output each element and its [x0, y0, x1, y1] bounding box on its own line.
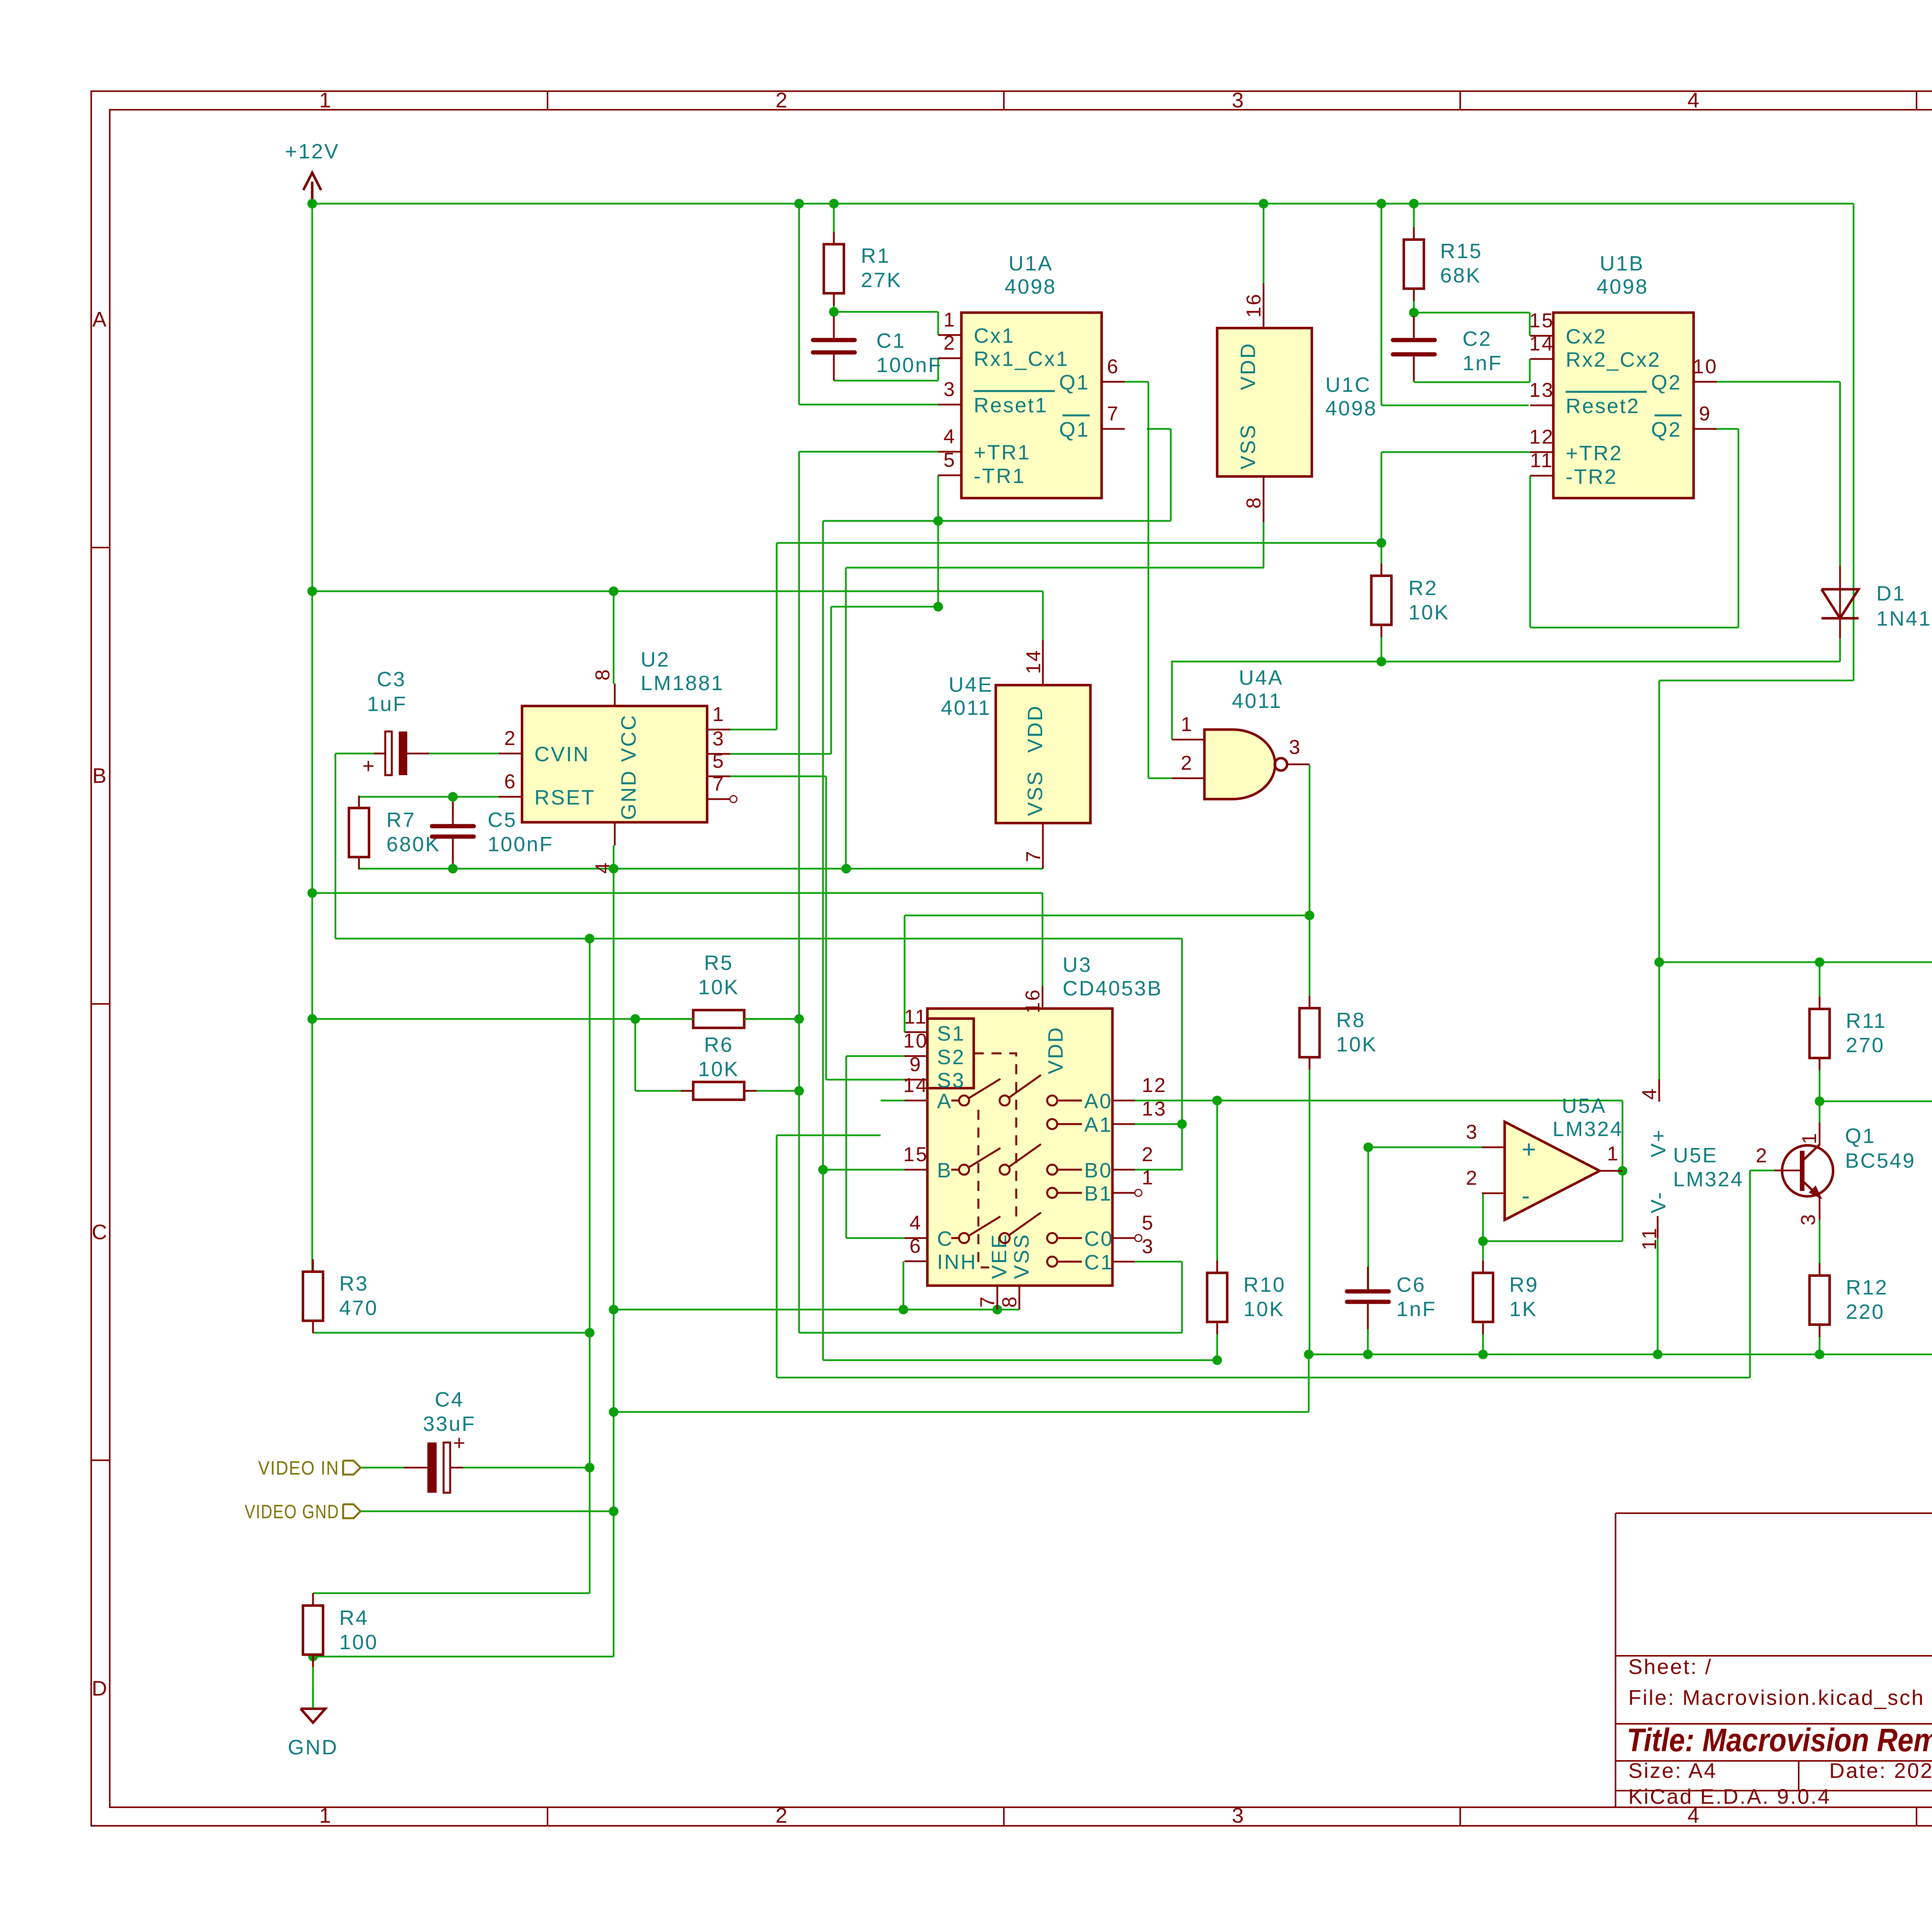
wire R11 to Q1 collector x4709	[1819, 1058, 1821, 1123]
svg-text:14: 14	[903, 1074, 929, 1097]
svg-text:B: B	[92, 764, 108, 788]
wire Q1 emitter to R12 x4709	[1819, 1220, 1821, 1276]
svg-text:4011: 4011	[1232, 689, 1282, 713]
svg-text:-: -	[1522, 1182, 1531, 1209]
svg-text:A0: A0	[1084, 1090, 1112, 1113]
svg-text:3: 3	[1142, 1235, 1154, 1258]
wire U1C pin8 riser x3270	[1263, 522, 1265, 568]
U2 pins	[614, 684, 616, 706]
svg-text:1: 1	[1142, 1167, 1154, 1189]
svg-text:4098: 4098	[1325, 397, 1377, 420]
U3 switch B	[951, 1169, 959, 1171]
wire S3 pin9 y2794	[826, 1079, 905, 1081]
svg-text:4: 4	[944, 425, 956, 448]
wire Rx1 bottom y985	[834, 380, 938, 382]
svg-text:+: +	[1522, 1135, 1537, 1163]
wire +TR1 y1169	[799, 451, 938, 453]
svg-text:+TR1: +TR1	[974, 441, 1031, 464]
wire R2 top column x3575	[1381, 452, 1383, 576]
wire R8 bottom x3389	[1309, 1057, 1311, 1354]
svg-text:C3: C3	[377, 668, 406, 691]
svg-text:6: 6	[910, 1235, 922, 1257]
svg-text:10K: 10K	[1408, 601, 1450, 624]
svg-text:15: 15	[903, 1143, 929, 1166]
wire C6 top riser x3541	[1367, 1147, 1369, 1289]
wire CSOUT net y1405	[777, 542, 1381, 544]
wire R3 bottom x810	[312, 1321, 314, 1333]
svg-text:B: B	[937, 1159, 952, 1182]
svg-text:100: 100	[339, 1631, 378, 1654]
svg-text:A: A	[92, 307, 108, 331]
wire R5/R6 link x1644	[634, 1019, 636, 1091]
opamp U5A LM324	[1505, 1122, 1600, 1220]
wire D1 bottom x4762	[1839, 638, 1841, 662]
wire Reset1 y1047	[799, 404, 938, 406]
svg-text:R11: R11	[1846, 1009, 1887, 1032]
svg-text:B0: B0	[1084, 1159, 1112, 1182]
svg-text:GND: GND	[288, 1736, 338, 1759]
svg-text:Q1: Q1	[1845, 1124, 1876, 1148]
U3 left pins	[905, 1031, 927, 1033]
wire video to A1/B0 x3059	[1181, 939, 1183, 1170]
wire -TR1 riser x2428	[937, 475, 939, 607]
svg-text:2: 2	[504, 727, 517, 750]
svg-text:R6: R6	[704, 1033, 733, 1056]
svg-text:12: 12	[1529, 426, 1554, 448]
power +12V symbol	[311, 182, 314, 204]
wire R4 top x810	[312, 1593, 314, 1606]
svg-text:A: A	[937, 1090, 952, 1113]
svg-text:C2: C2	[1463, 327, 1492, 350]
svg-text:11: 11	[1638, 1227, 1661, 1250]
U4E pins	[1042, 640, 1044, 685]
wire R15 bottom lead x3659	[1413, 289, 1415, 313]
svg-text:VDD: VDD	[1044, 1026, 1067, 1074]
svg-text:U2: U2	[641, 648, 670, 671]
IC U1C 4098 body	[1217, 328, 1312, 476]
svg-text:+TR2: +TR2	[1566, 442, 1623, 465]
wire C pin4 y3204	[846, 1237, 905, 1239]
svg-text:U5E: U5E	[1673, 1144, 1718, 1167]
wire VSOUT y1951	[730, 753, 831, 755]
wire U1C VDD riser x3270	[1263, 204, 1265, 283]
wire BPOUT y2009	[730, 776, 826, 777]
wire Q1bar pin7 y1110	[1147, 428, 1171, 430]
svg-text:R12: R12	[1846, 1276, 1888, 1299]
wire U5A feedback bottom y3212	[1483, 1240, 1622, 1242]
svg-text:8: 8	[998, 1295, 1021, 1308]
svg-text:C: C	[937, 1227, 954, 1250]
capacitor C2	[1393, 338, 1435, 342]
svg-text:12: 12	[1142, 1074, 1167, 1097]
svg-text:RSET: RSET	[534, 786, 595, 809]
svg-text:LM324: LM324	[1553, 1118, 1623, 1141]
wire U2 VCC riser x1588	[613, 591, 615, 684]
svg-text:CVIN: CVIN	[534, 743, 590, 766]
svg-text:1K: 1K	[1509, 1298, 1537, 1321]
svg-text:3: 3	[944, 378, 956, 401]
wire +12V right down x4797	[1853, 204, 1855, 680]
svg-text:3: 3	[1232, 1803, 1245, 1827]
wire CSOUT riser x2010	[776, 543, 778, 730]
capacitor C3 1uF polarized	[385, 731, 392, 775]
svg-text:7: 7	[1107, 403, 1119, 425]
svg-text:27K: 27K	[861, 269, 902, 292]
capacitor C5	[432, 824, 474, 828]
wire R2/D1/U4A1 net y1712	[1171, 661, 1840, 663]
U3 right pins	[1112, 1100, 1135, 1102]
svg-text:+12V: +12V	[285, 140, 340, 163]
resistor R5	[681, 1018, 693, 1020]
svg-text:7: 7	[1022, 850, 1045, 862]
svg-text:1uF: 1uF	[367, 692, 407, 716]
svg-text:5: 5	[944, 449, 956, 471]
wire VSOUT riser x2151	[830, 607, 832, 754]
svg-text:C0: C0	[1084, 1227, 1114, 1250]
U3 switch A	[951, 1100, 959, 1102]
svg-text:4: 4	[910, 1212, 922, 1234]
IC U2 LM1881 body	[522, 706, 707, 822]
wire C2 bottom lead x3659	[1413, 356, 1415, 382]
svg-text:100nF: 100nF	[488, 833, 554, 856]
diode D1 1N4148	[1821, 589, 1859, 618]
svg-text:5: 5	[713, 750, 725, 772]
wire Q1 base y3029	[1750, 1170, 1774, 1172]
svg-text:Size: A4: Size: A4	[1628, 1759, 1717, 1783]
resistor R1	[833, 232, 835, 244]
svg-text:U4A: U4A	[1239, 666, 1284, 689]
wire Reset1 to bus x2068	[798, 204, 800, 405]
svg-text:R8: R8	[1336, 1009, 1366, 1032]
svg-text:1: 1	[1181, 713, 1193, 736]
wire ground mid rail y2248	[359, 868, 1043, 870]
svg-text:Rx1_Cx1: Rx1_Cx1	[974, 347, 1069, 371]
svg-text:V+: V+	[1647, 1128, 1670, 1157]
wire R7 top lead x929	[358, 797, 360, 808]
U3 S-box	[927, 1019, 974, 1088]
wire Q1 pin6 y988	[1125, 381, 1148, 383]
wire R10 bottom x3150	[1216, 1322, 1218, 1360]
wire CVIN y1950	[429, 753, 499, 755]
svg-text:470: 470	[339, 1296, 378, 1320]
resistor R12	[1819, 1263, 1821, 1276]
resistor R15	[1413, 227, 1415, 240]
svg-text:7: 7	[713, 773, 725, 795]
svg-text:9: 9	[910, 1053, 922, 1076]
wire -TR2 riser x3960	[1529, 476, 1531, 628]
svg-text:CD4053B: CD4053B	[1063, 977, 1163, 1000]
svg-text:4: 4	[1638, 1087, 1661, 1100]
wire U1C pin8 y1469	[846, 567, 1264, 569]
U3 INH wire down	[903, 1261, 905, 1310]
wire CSOUT y1888	[730, 729, 777, 731]
wire A net lower y3565	[777, 1377, 1750, 1379]
wire Q2bar loop x4499	[1738, 429, 1740, 628]
wire U4E VDD riser x2699	[1042, 591, 1044, 640]
wire R4 bottom to gnd x810	[312, 1657, 314, 1708]
svg-text:1nF: 1nF	[1463, 352, 1503, 375]
opamp power U5E LM324	[1658, 1079, 1660, 1102]
resistor R4	[312, 1593, 314, 1606]
U3 pin5 no-connect circle	[1135, 1235, 1142, 1242]
svg-text:2: 2	[1756, 1145, 1768, 1167]
wire Cx1 top y807	[834, 311, 938, 313]
wire +12V top right y1761	[1659, 680, 1854, 682]
svg-text:R1: R1	[861, 244, 890, 267]
svg-text:U1C: U1C	[1325, 373, 1371, 396]
svg-text:4011: 4011	[941, 696, 991, 720]
wire Cx1 riser x2428	[937, 312, 939, 335]
svg-text:Q1: Q1	[1059, 418, 1090, 441]
svg-text:1nF: 1nF	[1396, 1298, 1437, 1321]
wire U3 VDD riser x2698	[1042, 893, 1044, 986]
svg-text:3: 3	[1797, 1213, 1820, 1225]
svg-text:3: 3	[713, 728, 725, 750]
wire C6 bottom lead x3541	[1367, 1304, 1369, 1354]
svg-text:Title: Macrovision Remover: Title: Macrovision Remover	[1627, 1722, 1932, 1758]
U3 top pin16	[1042, 986, 1044, 1009]
svg-text:1: 1	[319, 88, 332, 112]
svg-text:14: 14	[1022, 649, 1045, 674]
svg-text:Cx2: Cx2	[1566, 325, 1607, 348]
svg-text:1: 1	[944, 309, 956, 331]
svg-text:U1A: U1A	[1009, 252, 1053, 275]
svg-text:R5: R5	[704, 951, 733, 975]
wire C2 top lead x3659	[1413, 313, 1415, 339]
svg-text:220: 220	[1846, 1300, 1885, 1323]
hierarchical label VIDEO IN	[343, 1461, 361, 1475]
svg-text:5: 5	[1142, 1212, 1154, 1234]
wire +12V right rail y2490	[1659, 961, 1932, 963]
svg-text:2: 2	[944, 332, 956, 354]
wire Q2bar loop bottom y1624	[1530, 627, 1738, 629]
svg-text:3: 3	[1289, 736, 1301, 759]
wire +12V bus y527	[312, 203, 1854, 205]
junction dots	[308, 199, 317, 209]
title block	[1616, 1512, 1932, 1514]
svg-text:8: 8	[592, 668, 614, 680]
svg-text:2: 2	[776, 88, 789, 112]
wire R5 row y2637	[312, 1018, 799, 1020]
svg-text:R4: R4	[339, 1606, 369, 1630]
svg-text:R3: R3	[339, 1272, 369, 1295]
wire C2 bottom y989	[1414, 381, 1530, 383]
svg-text:KiCad E.D.A. 9.0.4: KiCad E.D.A. 9.0.4	[1628, 1784, 1831, 1808]
wire video bus y2429	[335, 938, 1182, 940]
svg-text:11: 11	[1530, 449, 1554, 472]
svg-text:C: C	[92, 1220, 108, 1244]
wire Q1bar/S3/-TR1 y1348	[823, 520, 1171, 522]
resistor R6	[681, 1090, 693, 1092]
svg-text:R9: R9	[1509, 1273, 1539, 1296]
wire C1 mux riser x3059	[1181, 1262, 1183, 1333]
resistor R3	[312, 1259, 314, 1272]
wire C5 top lead x1172	[452, 797, 454, 824]
svg-text:4: 4	[592, 861, 614, 874]
wire B/R10 row y3520	[823, 1359, 1217, 1361]
wire Q1bar to B column x2130	[822, 521, 824, 1360]
transistor Q1 BC549 NPN	[1782, 1145, 1833, 1196]
svg-text:Reset2: Reset2	[1566, 395, 1640, 418]
IC U3 CD4053B body	[927, 1009, 1112, 1286]
U3 dashed control lines	[974, 1053, 1016, 1221]
wire video to R4 y4123	[313, 1592, 590, 1594]
svg-text:2: 2	[1142, 1143, 1154, 1166]
wire R15 top lead x3659	[1413, 204, 1415, 240]
svg-text:U5A: U5A	[1562, 1094, 1607, 1118]
wire A pin14 y2848	[881, 1100, 905, 1102]
wire R12 bottom x4709	[1819, 1325, 1821, 1354]
svg-text:C5: C5	[488, 808, 517, 832]
svg-text:68K: 68K	[1440, 264, 1481, 287]
svg-text:VSS: VSS	[1236, 424, 1260, 469]
U3 bottom pins	[997, 1286, 998, 1310]
svg-text:R15: R15	[1440, 240, 1483, 263]
wire U5A plus input y2969	[1368, 1146, 1482, 1148]
svg-text:Date: 2025-09-26: Date: 2025-09-26	[1829, 1759, 1932, 1783]
svg-text:S3: S3	[937, 1069, 965, 1092]
capacitor C6	[1347, 1289, 1389, 1294]
svg-text:VIDEO IN: VIDEO IN	[258, 1457, 339, 1479]
svg-text:8: 8	[1243, 496, 1265, 509]
svg-text:270: 270	[1846, 1034, 1885, 1057]
svg-text:2: 2	[1181, 752, 1193, 774]
wire ground column x1588	[613, 845, 615, 1657]
wire video column x1526	[589, 939, 591, 1593]
svg-text:R7: R7	[386, 808, 416, 832]
wire R1 top lead x2158	[833, 204, 835, 244]
svg-text:BC549: BC549	[1845, 1149, 1916, 1172]
wire ground rail y3505	[1309, 1354, 1932, 1356]
svg-text:2: 2	[1466, 1167, 1478, 1189]
wire Reset2 to bus x3575	[1381, 204, 1383, 405]
svg-text:VSS: VSS	[1024, 770, 1047, 816]
wire BPOUT to S3 x2138	[825, 776, 827, 1080]
wire U1C VSS to gnd x2189	[845, 568, 847, 869]
svg-text:Sheet: /: Sheet: /	[1628, 1655, 1713, 1679]
wire A1 y2909	[1135, 1123, 1182, 1125]
svg-text:VIDEO GND: VIDEO GND	[245, 1501, 339, 1522]
svg-text:10: 10	[903, 1030, 929, 1052]
wire gnd to R4 y4287	[313, 1656, 614, 1658]
svg-text:S1: S1	[937, 1022, 965, 1045]
wire gnd link y3654	[614, 1411, 1309, 1413]
svg-text:11: 11	[904, 1006, 928, 1028]
wire R6 row y2823	[635, 1090, 799, 1092]
svg-text:3: 3	[1466, 1121, 1478, 1143]
wire C3 left y1950	[335, 753, 384, 755]
wire Q2 pin10 y988	[1715, 381, 1840, 383]
svg-text:1: 1	[1798, 1132, 1821, 1144]
svg-text:6: 6	[504, 771, 517, 793]
svg-text:1: 1	[1607, 1143, 1619, 1165]
svg-text:Q2: Q2	[1651, 418, 1682, 441]
wire A0 to R10 x3150	[1216, 1101, 1218, 1273]
U3 pin1 no-connect circle	[1135, 1189, 1142, 1196]
svg-text:C1: C1	[876, 329, 906, 352]
wire R2 bottom x3575	[1381, 626, 1383, 662]
wire Rx1 riser x2428	[937, 358, 939, 381]
svg-text:10K: 10K	[698, 976, 740, 999]
svg-text:-TR2: -TR2	[1566, 465, 1617, 488]
U1B pins	[1530, 335, 1553, 337]
wire Reset2 y1049	[1381, 405, 1529, 407]
svg-text:4: 4	[1687, 88, 1701, 112]
svg-text:4098: 4098	[1597, 275, 1648, 298]
wire RSET y2062	[359, 796, 499, 798]
wire Cx2 riser x3959	[1529, 313, 1531, 336]
svg-text:1: 1	[319, 1803, 332, 1827]
svg-text:100nF: 100nF	[876, 354, 942, 377]
wire C1net to mux y3449	[799, 1332, 1182, 1334]
svg-text:1: 1	[713, 703, 725, 726]
svg-text:VDD: VDD	[1236, 342, 1260, 390]
wire VEE/VSS/INH y3389	[614, 1309, 1019, 1311]
svg-text:10K: 10K	[1243, 1298, 1285, 1321]
U3 switch C	[951, 1237, 959, 1239]
IC U1A 4098 body	[961, 313, 1102, 498]
svg-text:6: 6	[1107, 356, 1119, 378]
svg-text:7: 7	[976, 1295, 999, 1308]
svg-text:GND: GND	[617, 770, 640, 820]
wire +TR2 y1170	[1381, 451, 1530, 453]
svg-text:14: 14	[1529, 333, 1554, 355]
resistor R7	[358, 796, 360, 808]
wire Q1 base riser x4529	[1749, 1170, 1751, 1378]
wire C3 to video x868	[335, 754, 337, 939]
wire R1 bottom lead x2158	[833, 293, 835, 312]
svg-text:-TR1: -TR1	[974, 464, 1026, 488]
IC U4E 4011 body	[996, 685, 1090, 823]
wire S1 control y2369	[905, 915, 1310, 917]
capacitor C1	[813, 338, 855, 342]
U2 pin7 no-connect circle	[730, 796, 737, 803]
resistor R10	[1216, 1260, 1218, 1273]
svg-text:10: 10	[1693, 356, 1718, 378]
svg-text:Reset1: Reset1	[974, 394, 1048, 417]
U1C pins	[1263, 283, 1265, 328]
wire B0 y3027	[1135, 1169, 1182, 1171]
svg-text:C6: C6	[1396, 1273, 1426, 1296]
svg-text:13: 13	[1142, 1098, 1167, 1120]
resistor R2	[1381, 563, 1383, 576]
ground GND symbol	[312, 1689, 314, 1708]
svg-text:D: D	[92, 1676, 108, 1700]
svg-text:33uF: 33uF	[423, 1412, 476, 1436]
wire A net upper y2938	[777, 1135, 881, 1136]
wire R11 to Q2 base y2850	[1820, 1101, 1932, 1102]
wire VIDEO GND y3911	[361, 1510, 614, 1512]
svg-text:LM1881: LM1881	[641, 672, 724, 695]
wire C5 bottom lead x1172	[452, 839, 454, 869]
wire U4A pin1 riser x3033	[1171, 662, 1173, 740]
wire Q2bar pin9 y1110	[1715, 428, 1738, 430]
wire V+ riser x4294	[1658, 680, 1660, 1079]
resistor R9	[1482, 1260, 1484, 1273]
wire R9 bottom x3838	[1482, 1322, 1484, 1354]
wire +TR1/R5 column x2068	[798, 452, 800, 1333]
U1A pins	[938, 334, 961, 336]
svg-text:U3: U3	[1063, 953, 1092, 976]
wire VIDEO IN left y3798	[361, 1467, 404, 1469]
wire C2 top y809	[1414, 312, 1530, 314]
wire gnd link riser x3387	[1308, 1354, 1310, 1412]
wire R9 top x3838	[1482, 1193, 1484, 1273]
svg-text:B1: B1	[1084, 1182, 1112, 1205]
wire U4A out to R8 x3389	[1309, 765, 1311, 1008]
svg-text:R10: R10	[1243, 1273, 1286, 1296]
svg-text:VDD: VDD	[1024, 704, 1047, 753]
